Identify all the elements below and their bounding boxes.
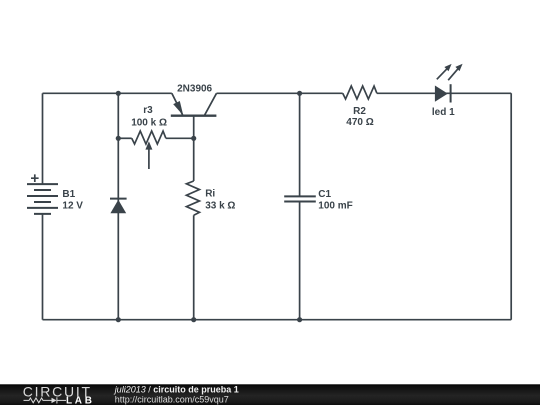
svg-text:led 1: led 1 — [432, 107, 455, 118]
svg-text:100 mF: 100 mF — [318, 201, 352, 212]
svg-text:Ri: Ri — [205, 189, 215, 200]
svg-text:470 Ω: 470 Ω — [346, 117, 373, 128]
svg-text:100 k Ω: 100 k Ω — [131, 117, 167, 128]
svg-text:33 k Ω: 33 k Ω — [205, 200, 235, 211]
svg-text:http://circuitlab.com/c59vqu7: http://circuitlab.com/c59vqu7 — [115, 394, 229, 404]
svg-text:B1: B1 — [62, 189, 75, 200]
svg-text:juli2013 / circuito de prueba: juli2013 / circuito de prueba 1 — [114, 385, 239, 395]
svg-text:LAB: LAB — [66, 395, 95, 405]
svg-text:r3: r3 — [143, 105, 153, 116]
svg-text:2N3906: 2N3906 — [177, 84, 212, 95]
svg-text:C1: C1 — [318, 189, 331, 200]
svg-text:12 V: 12 V — [62, 201, 83, 212]
svg-text:R2: R2 — [353, 106, 366, 117]
